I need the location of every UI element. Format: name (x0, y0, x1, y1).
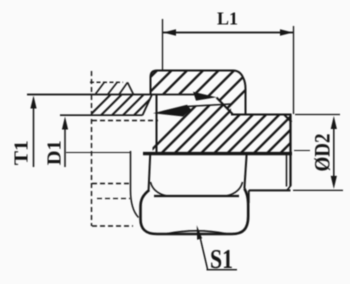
svg-text:D1: D1 (44, 140, 66, 165)
hex left chamfer arc (151, 182, 167, 196)
wire: L1 right extension line (293, 26, 295, 114)
pipe thread crest dashed line (90, 81, 123, 83)
pipe outer top line (also T1 extension) (27, 94, 196, 96)
centerline right tick (294, 150, 310, 152)
svg-text:S1: S1 (210, 244, 233, 274)
hidden line: outer bottom (dashed) (92, 225, 133, 227)
dimension D1 line with up arrow (64, 125, 66, 167)
pipe thread zigzag flank 4 (closing) (128, 82, 134, 94)
pipe inner line (also D1 extension) (60, 114, 143, 116)
centerline left segment (66, 152, 130, 154)
svg-text:T1: T1 (11, 140, 33, 165)
body hump outline (section) (151, 71, 246, 114)
male end chamfer line (external view) (286, 154, 288, 187)
pipe thread zigzag flank 2 (108, 83, 117, 95)
leader S1 (200, 237, 208, 269)
dimension ØD2 top extension (295, 114, 340, 116)
weld wedge 1 (filled, tip right) (193, 92, 217, 101)
body left face below socket (156, 95, 158, 154)
hidden line: phantom port face (dashed vertical) (91, 71, 93, 226)
label S1 underline (207, 269, 238, 271)
wedge 2 tail line (163, 107, 186, 112)
dimension L1 line (163, 32, 293, 34)
arrowhead L1 right (280, 29, 293, 35)
dimension ØD2 bottom extension (293, 189, 343, 191)
hex waist line (154, 195, 239, 197)
cone inner line (186, 104, 231, 107)
body section hatch (148, 104, 330, 154)
hidden line: bore bottom (dashed) (92, 183, 130, 185)
hex top edge / section boundary (thick) (143, 152, 292, 155)
hex right facet edge (244, 155, 246, 189)
arrowhead ØD2 down (331, 176, 337, 189)
arrowhead S1 (197, 225, 202, 240)
pipe thread zigzag flank 1 (96, 82, 105, 94)
male end bottom edge (249, 189, 291, 191)
hex right chamfer arc (227, 182, 243, 196)
dimension ØD2 vertical line (333, 124, 335, 180)
male end chamfer corner diagonal (287, 186, 291, 191)
hex silhouette (141, 189, 249, 235)
hex bottom chamfer arc (167, 231, 226, 234)
dimension T1 line with up arrow (33, 104, 35, 167)
hidden line: mid (dashed) (97, 198, 130, 200)
pipe flare slope (143, 95, 153, 116)
male end top edge (OD line in section) (231, 114, 292, 116)
male end top chamfer (284, 115, 292, 123)
hidden line: bore top (dashed) (92, 120, 158, 122)
pipe thread zigzag flank 3 (119, 82, 128, 94)
cone slope line (217, 98, 233, 115)
svg-text:L1: L1 (217, 9, 238, 29)
weld wedge 2 (filled, tip left) (153, 105, 191, 117)
hump hatch (131, 71, 265, 114)
male end shoulder vertical (248, 190, 250, 203)
male end face (right edge) (289, 115, 291, 187)
arrowhead L1 left (163, 29, 176, 35)
wire: L1 left extension line (162, 19, 164, 70)
pipe wall hatch (90, 94, 155, 115)
svg-text:ØD2: ØD2 (310, 134, 335, 172)
hex left facet edge (149, 155, 151, 191)
arrowhead ØD2 up (331, 116, 337, 129)
nut left face line with curve (131, 151, 139, 218)
